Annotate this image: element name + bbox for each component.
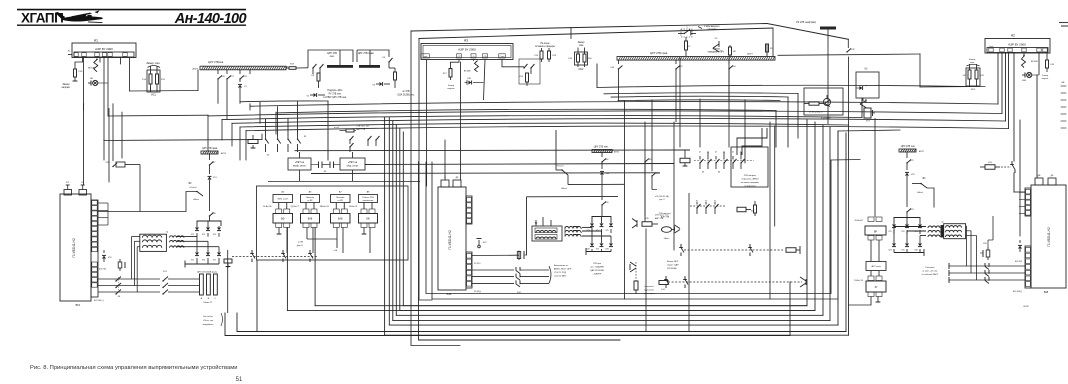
svg-text:Рис. 8. Принципиальная схема: Рис. 8. Принципиальная схема управления … [30, 364, 237, 371]
T1 secondary coils [170, 236, 184, 238]
svg-text:«Пост. ток: «Пост. ток [203, 320, 213, 322]
diode V15 [196, 251, 198, 252]
diode near VU3 [1019, 240, 1021, 243]
svg-text:Г1 ИББ41-Н2: Г1 ИББ41-Н2 [1047, 227, 1051, 247]
svg-text:в 27В: в 27В [298, 242, 304, 244]
svg-text:(53А 55,5В) рез.: (53А 55,5В) рез. [397, 94, 414, 97]
svg-text:нв: нв [865, 85, 867, 87]
svg-text:напряж.: напряж. [1041, 78, 1049, 80]
stack wires [870, 240, 872, 262]
fuse F17b [209, 154, 211, 160]
svg-text:включение: включение [363, 200, 374, 202]
A2 drop wires into band [997, 53, 999, 105]
svg-text:лев.: лев. [330, 55, 335, 58]
transistor above cap [630, 262, 636, 266]
svg-text:от шин +27 лев.: от шин +27 лев. [922, 271, 938, 273]
three-phase contact K6 [116, 277, 121, 282]
unit drop wires [286, 228, 288, 254]
svg-text:от кабелей ЗАСУ: от кабелей ЗАСУ [922, 273, 939, 276]
relay oval K15 [662, 227, 672, 233]
contact K1.2 [678, 33, 684, 35]
svg-text:ЦРУ 27В прав.: ЦРУ 27В прав. [202, 148, 218, 150]
bar drop F44 [728, 60, 730, 64]
V19 stub [478, 240, 480, 245]
svg-text:А2: А2 [1011, 34, 1015, 38]
svg-text:АП31: АП31 [614, 151, 620, 154]
diode V22 [906, 223, 908, 224]
unit А5 connector pins top [276, 209, 282, 214]
svg-text:БФ: БФ [281, 218, 284, 221]
fuse F38/HB1 [766, 44, 768, 50]
unit A2 box АЗР 8У 2000 [985, 39, 1050, 54]
left bridge phase rails [177, 236, 197, 238]
svg-text:от ВУ: от ВУ [307, 200, 313, 202]
svg-text:вспф. сети»: вспф. сети» [293, 165, 306, 168]
diode V3 [376, 83, 379, 85]
bus drop wire [249, 70, 251, 74]
svg-text:Сumб: Сumб [500, 56, 505, 58]
svg-text:АЗР 8У 2000: АЗР 8У 2000 [95, 47, 113, 51]
unit А7 relay box БАБ [331, 214, 351, 224]
transistor V5 [713, 44, 719, 48]
wire mesh right bottom [688, 193, 690, 332]
fuse F43 [1046, 53, 1048, 60]
A2 long drop wires [1013, 53, 1015, 162]
svg-text:АП27: АП27 [193, 68, 199, 71]
relay K12 box [680, 158, 690, 163]
wire drops from unit A1 [83, 58, 85, 186]
svg-text:Замер тока: Замер тока [146, 62, 160, 65]
svg-text:ЦРУ 27В лев.: ЦРУ 27В лев. [901, 146, 916, 148]
svg-text:27В прав. лев.: 27В прав. лев. [655, 215, 669, 217]
diode in K3 [856, 87, 860, 89]
relay K28 contact and coil [112, 158, 114, 161]
diode V2 with designation row [310, 94, 313, 96]
svg-text:Сumб: Сumб [989, 46, 994, 48]
svg-text:в: в [581, 232, 582, 234]
svg-text:F41: F41 [963, 75, 966, 77]
wire pin to capacitor [472, 254, 519, 256]
svg-text:Х1: Х1 [723, 152, 725, 154]
diode VD3 [209, 165, 211, 174]
svg-text:АП27: АП27 [747, 53, 753, 56]
wire from РК down [827, 30, 829, 121]
fuse F34 [601, 153, 603, 158]
unit А6 connector pins bottom [303, 223, 309, 228]
capacitor near VU1 [119, 259, 121, 262]
fuse F24 on bus output [286, 67, 289, 69]
band tail turns [327, 101, 329, 160]
current sensor IS1 box [147, 70, 160, 92]
wire A1 to bus bar [129, 58, 131, 92]
svg-text:(рис.1): (рис.1) [297, 245, 304, 247]
svg-text:V15: V15 [191, 260, 194, 262]
svg-text:«Вкл»: «Вкл» [917, 192, 924, 194]
svg-text:ЦРУ 27Влев.: ЦРУ 27Влев. [208, 60, 224, 64]
unit А8 connector pins top [361, 209, 367, 214]
svg-text:а-кл2: а-кл2 [334, 127, 340, 129]
svg-text:ВУ1: ВУ1 [76, 303, 81, 307]
wire IS1 to bar [146, 88, 148, 90]
svg-text:БАБ: БАБ [308, 218, 313, 221]
relay K7 [224, 259, 232, 263]
T2 secondary coils [565, 227, 581, 229]
svg-text:питания и фидеры: питания и фидеры [535, 45, 555, 48]
header bottom rule [17, 24, 246, 26]
svg-text:СУУ-П, РУД: СУУ-П, РУД [554, 272, 567, 274]
svg-text:20.Вк-СВ: 20.Вк-СВ [263, 206, 272, 208]
centre relay + transistor cluster [632, 219, 637, 223]
bar drop X37 [675, 60, 677, 64]
svg-text:систем МЕУ: систем МЕУ [554, 276, 567, 278]
transistor end link2 [800, 277, 806, 281]
capacitor C [518, 251, 520, 261]
svg-text:Х1: Х1 [715, 152, 717, 154]
svg-text:3В.Вк-С11: 3В.Вк-С11 [320, 206, 330, 208]
switch blade below A1 [94, 60, 98, 72]
dashed link row 2 [668, 281, 802, 283]
svg-text:ИС1: ИС1 [151, 94, 156, 97]
svg-text:ВК 63В: ВК 63В [464, 71, 471, 73]
A3 drop wires [426, 60, 428, 101]
K10 contacts [515, 267, 517, 271]
unit A3 pin strip [421, 54, 430, 58]
contact F38b [209, 215, 210, 216]
svg-text:АЧР 27В: АЧР 27В [655, 217, 664, 220]
unit A1 box АЗР 8У 2000 [72, 43, 136, 58]
svg-text:на шины аварийн.: на шины аварийн. [741, 181, 760, 184]
T1 primary feeds [131, 236, 139, 238]
svg-text:с БАРЕР: с БАРЕР [593, 273, 602, 276]
svg-text:«Вкл»: «Вкл» [561, 188, 568, 190]
svg-text:передачи УПР»: передачи УПР» [708, 52, 725, 54]
svg-text:Х1: Х1 [707, 152, 709, 154]
capacitor K20 [987, 247, 989, 250]
logo airplane silhouette [55, 10, 103, 23]
box around X14 [519, 59, 540, 84]
svg-text:Ш1 Х62: Ш1 Х62 [99, 269, 107, 271]
VU1 pin stub wires [98, 202, 108, 204]
svg-text:51: 51 [236, 377, 243, 383]
svg-text:переключ. АВSU: переключ. АВSU [742, 178, 759, 181]
contacts on three wires [984, 263, 986, 267]
svg-text:х19 (205,91 ЭВ): х19 (205,91 ЭВ) [655, 196, 669, 198]
wire verticals right-centre [624, 101, 626, 300]
svg-text:ВчБ: ВчБ [447, 292, 452, 296]
left bridge top rail [197, 221, 221, 226]
svg-text:ВчВ: ВчВ [1044, 291, 1049, 294]
centre bridge bottom rail [586, 251, 611, 253]
contact K pair right [388, 61, 389, 62]
svg-text:Г1 ИББ41-Н2: Г1 ИББ41-Н2 [72, 238, 76, 258]
contact row K2 group [265, 119, 267, 136]
switch blade centre [473, 60, 475, 62]
svg-text:Х1: Х1 [732, 152, 734, 154]
svg-text:АЧР 27В: АЧР 27В [357, 128, 366, 131]
diode V20 [906, 163, 908, 170]
bus bar (hatched) left [200, 66, 286, 70]
VU2 top tabs [441, 180, 449, 187]
T2 lead wires left [535, 220, 537, 226]
svg-text:20.Вк-С6: 20.Вк-С6 [349, 206, 358, 208]
bar drop F36 [618, 60, 620, 64]
svg-text:Сл: Сл [472, 56, 474, 58]
VU1 top tabs [64, 190, 72, 196]
centre bridge phase rails [582, 226, 592, 228]
svg-text:напряж.: напряж. [62, 86, 71, 89]
IS1 shunt resistors F14 F15 [150, 66, 152, 74]
diode V27 [601, 242, 603, 243]
diode V21 [893, 223, 895, 224]
T3 primary tails [965, 225, 968, 227]
svg-text:V12: V12 [191, 234, 194, 236]
svg-text:Ш2 Х63(-): Ш2 Х63(-) [1013, 291, 1022, 293]
K10 three wires [472, 269, 514, 271]
svg-text:V25: V25 [605, 230, 608, 232]
resistor X27 + label [451, 60, 460, 69]
svg-text:тиристоров: тиристоров [644, 293, 656, 295]
VU1 main box [60, 194, 91, 301]
svg-text:Замер: Замер [578, 42, 586, 44]
svg-text:РУ1: РУ1 [66, 182, 69, 184]
svg-text:ЦРУ 27В лев.: ЦРУ 27В лев. [594, 147, 609, 149]
РК bus stub (solid) [820, 27, 836, 30]
bus band left-centre horizontal wires [240, 100, 328, 103]
bus drop F17 [226, 70, 228, 74]
nested corner frames above contact row [737, 128, 767, 155]
svg-text:«Откл»: «Откл» [189, 187, 197, 189]
svg-text:20.Вк-Б11: 20.Вк-Б11 [854, 220, 863, 222]
svg-text:«Откл»: «Откл» [556, 166, 564, 168]
three-phase contact F21 [163, 277, 168, 282]
svg-text:«ВУ2 откл»: «ВУ2 откл» [871, 266, 882, 268]
svg-text:рис. 6: рис. 6 [659, 199, 664, 201]
transistor below K3 [862, 98, 864, 101]
svg-text:ЦРУ 27В прав.: ЦРУ 27В прав. [650, 51, 668, 55]
svg-text:V17: V17 [213, 260, 216, 262]
wire from A3 area to right section top [767, 24, 848, 40]
fuse F22 [906, 152, 908, 158]
unit А7 connector pins top [333, 209, 339, 214]
svg-text:Включ. ВКЛ: Включ. ВКЛ [667, 261, 679, 263]
svg-text:Работа 27В: Работа 27В [362, 197, 374, 199]
svg-text:тирист. ЦАР: тирист. ЦАР [667, 264, 679, 267]
right stack unit ВР [865, 226, 886, 235]
svg-text:Ш2 Х62: Ш2 Х62 [1015, 261, 1023, 263]
svg-text:и бортсети: и бортсети [745, 186, 757, 188]
VU2 main box [438, 187, 466, 290]
page edge tick marks [1061, 85, 1066, 87]
contact Р42 [827, 120, 829, 124]
svg-text:+ 5В: + 5В [333, 250, 338, 252]
svg-text:АВSU, МСУ, ЦУР: АВSU, МСУ, ЦУР [554, 268, 572, 271]
svg-text:с: с [581, 236, 582, 238]
svg-text:РК 27В лев(прав): РК 27В лев(прав) [796, 21, 816, 24]
bus drop F19 + diode V1 [239, 70, 241, 74]
diode V30c [601, 162, 603, 169]
link contacts [251, 250, 253, 254]
wires cluster [299, 170, 301, 181]
centre section outer frame wires [411, 31, 460, 346]
diode V26 [919, 238, 921, 243]
unit А6 connector pins top [303, 209, 309, 214]
centre bridge top rail [592, 217, 611, 223]
svg-text:27В напряж.: 27В напряж. [744, 175, 757, 177]
svg-text:V28: V28 [605, 249, 608, 251]
diode V12 [196, 226, 198, 227]
K3 box [856, 72, 879, 98]
relay K24 + dashed contact [985, 165, 995, 170]
diode V24 [601, 222, 603, 223]
svg-text:Сumб: Сumб [423, 56, 428, 58]
svg-text:аварийно»: аварийно» [203, 323, 215, 326]
svg-text:ВР: ВР [874, 231, 878, 233]
relay K17 [864, 108, 871, 118]
svg-text:27В лев. пит.: 27В лев. пит. [357, 126, 371, 128]
svg-text:На шине: На шине [540, 43, 550, 45]
wire from stack to left [848, 300, 871, 305]
svg-text:«НЕТ на: «НЕТ на [348, 162, 358, 164]
VU3 left pin strip [1025, 188, 1031, 216]
diode V14 [218, 226, 220, 227]
right stack unit ЗУ [866, 281, 886, 292]
svg-text:V26: V26 [586, 249, 589, 251]
svg-text:«Вкл»: «Вкл» [664, 238, 671, 240]
svg-text:Разъемы: Разъемы [926, 267, 935, 269]
page margin marks [1059, 22, 1068, 24]
svg-text:V14: V14 [213, 234, 216, 236]
bottom loop wires [256, 261, 258, 332]
svg-text:«Вкл»: «Вкл» [193, 199, 200, 201]
unit А6 relay box БАБ [301, 214, 320, 224]
svg-text:V13: V13 [202, 234, 205, 236]
svg-text:27В при: 27В при [593, 263, 602, 265]
diode V13 [207, 226, 209, 227]
svg-text:общ. сеть»: общ. сеть» [347, 166, 359, 168]
svg-text:вкл. ГЪ(АЗНВ: вкл. ГЪ(АЗНВ [590, 266, 604, 269]
contact row upper [699, 162, 700, 163]
svg-text:«засечка»: «засечка» [644, 286, 655, 288]
svg-text:F42: F42 [981, 75, 984, 77]
svg-text:РУ 27В лев.: РУ 27В лев. [329, 94, 342, 96]
resistor X14 [526, 73, 529, 82]
svg-text:V16: V16 [202, 260, 205, 262]
svg-text:БФ: БФ [366, 218, 369, 221]
fuses F20 F24 [541, 48, 543, 51]
svg-text:АП27: АП27 [919, 150, 925, 153]
svg-text:ИС2: ИС2 [579, 68, 584, 71]
bus bar (hatched) right [617, 57, 775, 61]
indicator H36 [1022, 74, 1025, 76]
svg-text:Шина Г1: Шина Г1 [204, 302, 213, 304]
contact pair upper [367, 139, 368, 140]
indicator H6 [88, 82, 91, 84]
A1 pin stub wire [68, 54, 72, 56]
diode V25 [906, 238, 908, 243]
contacts a-v1 [349, 139, 350, 140]
resistor H8 [729, 45, 731, 47]
mechanical dashed link [232, 256, 318, 258]
svg-text:Х1: Х1 [699, 152, 701, 154]
three-phase wires [98, 278, 160, 280]
left bridge bottom rail [185, 263, 219, 265]
svg-text:ВК 63В: ВК 63В [1031, 61, 1038, 63]
bar top feed wires [685, 56, 687, 58]
diode V25 [610, 222, 612, 223]
wire verticals right section [919, 54, 921, 87]
left contacts K34 K30 [644, 161, 645, 162]
cluster outgoing long wires [295, 149, 691, 152]
wires around bus segments [308, 50, 353, 68]
bus drop F16 [217, 70, 219, 74]
svg-text:Х1: Х1 [740, 152, 742, 154]
unit А7 connector pins bottom [333, 223, 339, 228]
wire top loop over centre section [411, 24, 767, 32]
unit A1 pin strip [74, 52, 134, 57]
right stack label box ВУ2 откл [866, 262, 886, 271]
extra right-half wires [597, 85, 970, 87]
diode V26 [591, 242, 593, 243]
svg-text:Замер: Замер [1042, 75, 1049, 77]
unit А8 connector pins bottom [361, 223, 367, 228]
unit А5 relay box БФ [273, 214, 293, 224]
svg-text:Г1 ИББ41-Н2: Г1 ИББ41-Н2 [448, 230, 452, 250]
svg-text:питания: питания [708, 29, 717, 31]
svg-text:115/200Вч: 115/200Вч [667, 268, 677, 270]
svg-text:кл 27В: кл 27В [402, 91, 410, 93]
svg-text:АП12: АП12 [221, 152, 227, 155]
svg-text:АЗР 9У 2000: АЗР 9У 2000 [458, 48, 476, 52]
centre long vertical wires [460, 62, 462, 180]
block box кл 94 [804, 88, 843, 115]
resistor X14b [394, 72, 397, 80]
svg-text:Включение от: Включение от [554, 265, 568, 267]
capacitor засечка [635, 262, 637, 281]
right bridge phase rails [893, 227, 895, 239]
svg-text:20.Вк-С10: 20.Вк-С10 [854, 280, 863, 282]
resistor X8 [317, 73, 320, 81]
unit А8 relay box БФ [359, 214, 378, 224]
VU3 pin stubs [1019, 191, 1025, 193]
svg-text:в АПМ7 ЦРУ 27В лев.: в АПМ7 ЦРУ 27В лев. [323, 96, 347, 99]
svg-text:А3: А3 [464, 39, 468, 43]
header top rule [17, 9, 246, 11]
transistor in block [823, 98, 830, 105]
svg-text:«ВУ1 откл»: «ВУ1 откл» [277, 199, 289, 201]
contact K13 [523, 67, 524, 68]
svg-text:напряж.: напряж. [447, 88, 455, 90]
diode V28 [610, 242, 612, 243]
diode V16 [207, 251, 209, 252]
svg-text:V27: V27 [596, 249, 599, 251]
svg-text:ВК 63В: ВК 63В [88, 67, 95, 69]
svg-text:V25: V25 [901, 250, 904, 252]
A2 switch blade [1022, 56, 1026, 68]
three wires Разъемы [949, 265, 1025, 267]
centre long links [568, 183, 625, 185]
fuse F10 [75, 58, 83, 70]
svg-text:V24: V24 [888, 250, 891, 252]
dashed link row 1 [684, 249, 783, 251]
contact F23 [906, 211, 907, 212]
relay coil right of link1 [786, 248, 796, 253]
svg-text:впускание: впускание [644, 290, 655, 292]
svg-text:с шин аккумул.: с шин аккумул. [704, 26, 720, 28]
svg-text:тока: тока [970, 62, 975, 64]
unit А5 connector pins bottom [276, 223, 282, 228]
svg-text:V22: V22 [901, 231, 904, 233]
VU3 top tabs [1035, 178, 1043, 185]
